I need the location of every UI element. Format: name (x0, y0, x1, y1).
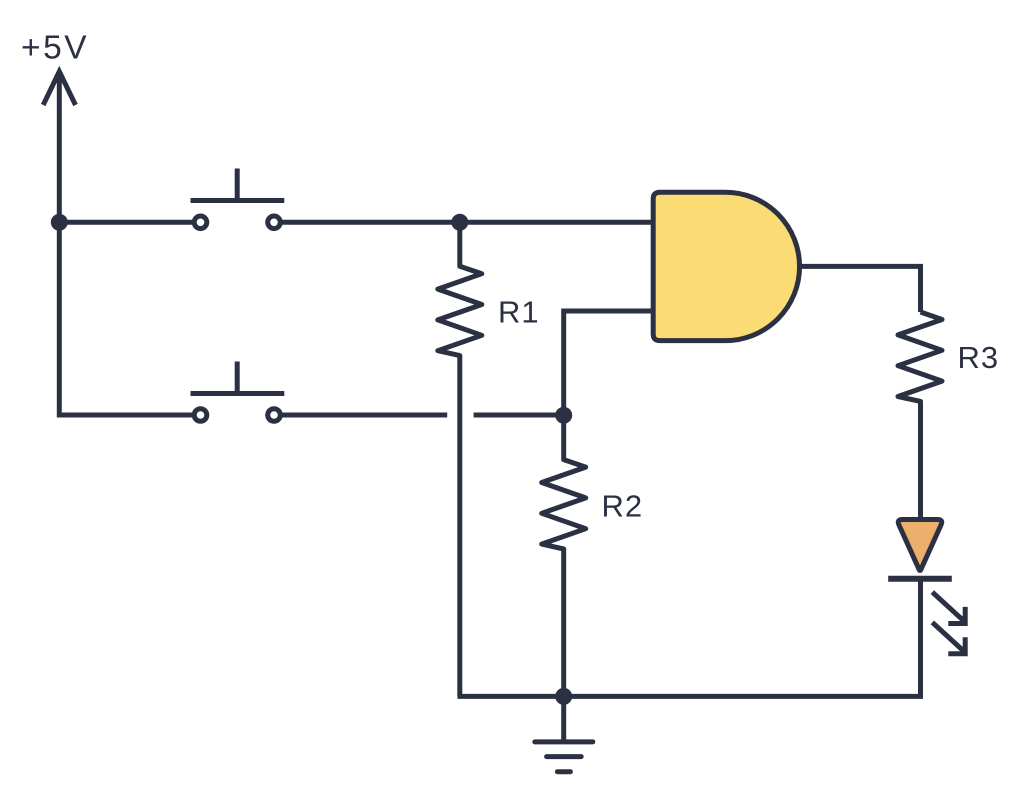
junction node above R1 (451, 214, 468, 231)
svg-text:R1: R1 (498, 295, 540, 330)
LED emission arrow 2 (932, 622, 965, 653)
AND gate U1 (653, 192, 799, 340)
resistor R2 with leads down to ground rail (542, 415, 586, 696)
LED emission arrow 1 (932, 592, 965, 623)
power supply arrow (43, 71, 75, 222)
LED cathode bar (888, 576, 952, 582)
resistor R3 with leads down to LED (898, 312, 942, 520)
junction node at ground rail (555, 688, 572, 705)
svg-text:+5V: +5V (21, 30, 89, 67)
junction node above R2 (555, 407, 572, 424)
ground rail wire (458, 694, 924, 699)
pushbutton S1 (191, 169, 285, 229)
svg-text:R3: R3 (958, 340, 1000, 375)
LED D1 triangle (898, 520, 941, 571)
wire from +5V node down-left and to pushbutton S2 (59, 222, 192, 415)
wire from S2 toward junction (gap hop over R1 lead) (282, 413, 447, 418)
wire from junction up to AND gate input B (564, 311, 654, 415)
wire from hop gap to junction above R2 (474, 413, 564, 418)
resistor R1 with leads down to ground rail (438, 222, 482, 696)
ground symbol (535, 696, 593, 771)
pushbutton S2 (191, 362, 285, 422)
wire from LED to ground rail (918, 579, 923, 697)
junction node at +5V rail (51, 214, 68, 231)
wire from +5V junction to pushbutton S1 (59, 220, 192, 225)
wire from gate output to R3 (800, 266, 921, 312)
svg-text:R2: R2 (602, 489, 644, 524)
wire from S1 to AND gate input A (282, 220, 654, 225)
